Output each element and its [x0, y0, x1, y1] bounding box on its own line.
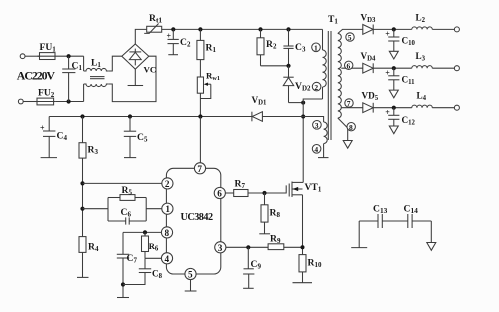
svg-text:5: 5: [348, 33, 352, 42]
terminal out row2: [454, 66, 459, 71]
fuse FU1: [38, 42, 58, 60]
bridge rectifier VC: [122, 44, 156, 75]
pin 7: [194, 163, 205, 174]
pin 5: [346, 33, 354, 42]
wire pin 8: [123, 231, 162, 233]
svg-text:7: 7: [197, 164, 202, 174]
svg-text:2: 2: [165, 179, 170, 189]
wire: [56, 101, 84, 103]
svg-text:6: 6: [217, 189, 222, 199]
wire aux top: [303, 117, 323, 123]
ground arrow C10: [389, 51, 398, 59]
ground arrow pin 8: [343, 141, 352, 149]
svg-text:3: 3: [218, 243, 223, 253]
diode VD1: [252, 95, 268, 121]
wire pin 6: [225, 192, 233, 194]
wire pin5 ground: [185, 279, 197, 291]
inductor L2: [412, 13, 432, 30]
capacitor C4 (polarized): [40, 117, 67, 158]
node C7/C8 bottom junction: [121, 282, 125, 286]
terminal out row1: [454, 27, 459, 32]
pin 6: [345, 61, 353, 70]
resistor R7: [234, 179, 248, 197]
node: FU2/C1 junction: [67, 99, 71, 103]
capacitor C8: [123, 258, 163, 284]
svg-text:+: +: [167, 32, 172, 41]
node R3 top: [80, 114, 84, 118]
svg-text:C14: C14: [404, 204, 419, 216]
wire: [23, 101, 37, 103]
pin 2: [312, 82, 321, 92]
wire row3: [373, 107, 412, 109]
wire down to pin 7: [199, 117, 201, 164]
wire row2: [373, 67, 412, 69]
ground arrow C14 side: [427, 221, 436, 250]
svg-text:7: 7: [347, 99, 351, 108]
wire row1: [373, 28, 412, 30]
diode VD3: [361, 13, 377, 35]
wire bridge top to rail: [135, 29, 146, 44]
node C2 junction: [171, 27, 175, 31]
pin 2: [162, 178, 173, 189]
node C5 top: [128, 114, 132, 118]
svg-text:+: +: [385, 68, 390, 77]
node C3 top: [286, 27, 290, 31]
wire R2 bottom to C3 node: [261, 65, 289, 67]
node VD1/aux junction: [301, 115, 305, 119]
resistor R4: [77, 237, 99, 278]
svg-text:+: +: [385, 108, 390, 117]
wire to R5/C6: [83, 208, 109, 210]
capacitor C10: [385, 29, 415, 51]
svg-text:1: 1: [314, 44, 318, 53]
svg-text:4: 4: [314, 145, 318, 154]
ground arrow C12: [389, 126, 398, 134]
wire top rail: [162, 28, 323, 30]
capacitor C9: [243, 247, 261, 288]
capacitor C12: [385, 108, 415, 127]
diode VD5: [362, 91, 379, 113]
pin 8: [161, 227, 172, 238]
capacitor C1: [62, 56, 82, 101]
svg-text:1: 1: [165, 204, 170, 214]
diode VD2: [283, 66, 311, 103]
wire: [57, 55, 84, 57]
wire R3 line down: [82, 158, 84, 237]
svg-text:5: 5: [188, 270, 193, 280]
wire pin 2: [83, 182, 163, 184]
ground arrow C11: [389, 90, 398, 98]
node drain/VD2: [301, 101, 305, 105]
diode VD4: [361, 51, 377, 73]
inductor L3: [412, 51, 432, 68]
R5/C6 network frame: [108, 198, 162, 222]
node snubber bottom: [286, 64, 290, 68]
wire VD2 to drain node: [289, 102, 304, 104]
ground bar aux winding: [318, 157, 329, 159]
wire L1 bottom to bridge right leg: [109, 56, 156, 101]
pin 7: [345, 99, 353, 108]
ground bar C7: [117, 297, 129, 299]
bridge bottom stub with bar: [128, 69, 144, 85]
secondary winding 5-8: [338, 29, 363, 140]
pin 1: [162, 203, 173, 214]
inductor L1 (common-mode choke): [84, 56, 109, 101]
svg-text:3: 3: [315, 121, 319, 130]
pin 4: [312, 145, 321, 155]
op-amp U1 UC3842 body: [166, 168, 220, 274]
pin 6: [214, 187, 225, 198]
svg-text:+: +: [40, 124, 45, 133]
wire pin 3: [226, 246, 269, 248]
node: FU1/C1 junction: [67, 54, 71, 58]
resistor R8: [259, 193, 280, 234]
wire mid rail (Vcc): [49, 116, 252, 118]
potentiometer Rw1: [197, 60, 220, 117]
terminal input L (top): [20, 54, 25, 59]
svg-text:4: 4: [165, 254, 170, 264]
aux winding 3-4: [324, 122, 328, 158]
capacitor C2 (polarized): [167, 29, 191, 54]
resistor R3: [79, 117, 98, 159]
wire drain node up to primary pin2: [303, 99, 322, 103]
svg-text:6: 6: [347, 62, 351, 71]
node C9 top: [246, 245, 250, 249]
node R8 top: [262, 191, 266, 195]
svg-text:Rt1: Rt1: [149, 13, 162, 25]
svg-text:VC: VC: [144, 65, 157, 75]
node R1 top junction: [198, 27, 202, 31]
wire pin 4: [145, 257, 162, 259]
svg-text:2: 2: [314, 83, 318, 92]
resistor R6: [142, 232, 159, 258]
pin 3: [313, 121, 322, 131]
capacitor C14: [382, 204, 431, 229]
wire L1 to bridge left leg: [109, 56, 122, 71]
capacitor C13: [359, 204, 387, 229]
terminal out row3: [454, 105, 459, 110]
wire gate: [248, 185, 286, 193]
resistor R5: [120, 185, 135, 200]
wire: [25, 55, 40, 57]
thermistor Rt1: [144, 13, 162, 33]
capacitor C6: [121, 207, 132, 225]
capacitor C11: [385, 68, 415, 90]
capacitor C3: [283, 29, 306, 65]
svg-text:UC3842: UC3842: [181, 212, 213, 223]
resistor R2: [257, 29, 277, 65]
resistor R9: [268, 234, 302, 250]
svg-text:8: 8: [349, 123, 353, 132]
terminal input N (bottom): [18, 99, 23, 104]
capacitor C7: [117, 232, 138, 297]
pin 1: [312, 43, 321, 53]
node source/R9: [301, 245, 305, 249]
node C11: [392, 66, 396, 70]
node R2 top: [258, 27, 262, 31]
svg-text:+: +: [385, 30, 390, 39]
inductor L4: [412, 91, 432, 108]
resistor R10: [293, 255, 322, 283]
capacitor C5: [124, 117, 148, 158]
node R6 top: [143, 230, 147, 234]
pin 5: [185, 268, 196, 279]
node C12: [392, 106, 396, 110]
transformer core: [328, 31, 331, 140]
wire drain vertical: [302, 103, 304, 183]
fuse FU2: [35, 88, 56, 105]
transistor Q1 VT1 MOSFET: [289, 182, 322, 255]
resistor R1: [197, 29, 217, 59]
pin 3: [215, 242, 226, 253]
primary winding 1-2: [323, 29, 327, 99]
svg-text:C13: C13: [373, 204, 388, 216]
pin 4: [161, 253, 172, 264]
node R5C6 tap: [80, 207, 84, 211]
wire VD1 to drain node: [262, 116, 303, 118]
node C10: [392, 27, 396, 31]
svg-text:AC220V: AC220V: [17, 69, 56, 83]
ground bar C13 side: [351, 221, 367, 248]
node pin2 tap: [80, 181, 84, 185]
node Vcc/R1 line junction: [198, 114, 202, 118]
pin 8: [347, 123, 355, 132]
svg-text:8: 8: [165, 228, 170, 238]
